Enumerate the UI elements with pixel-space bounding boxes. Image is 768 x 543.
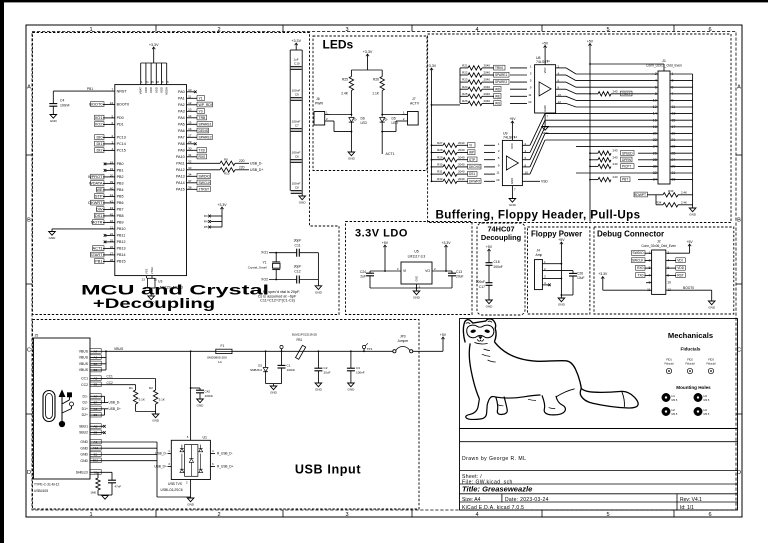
gnd cap bank: [299, 196, 306, 200]
svg-text:1.1K: 1.1K: [372, 92, 380, 96]
svg-text:VDI: VDI: [677, 259, 683, 263]
svg-text:U5: U5: [414, 250, 419, 254]
svg-text:2: 2: [217, 27, 220, 33]
svg-text:GND: GND: [413, 296, 421, 300]
svg-text:VCC: VCC: [510, 143, 514, 149]
svg-text:PWR: PWR: [315, 101, 323, 105]
power +5V debug: [666, 252, 690, 254]
svg-text:SPEED: SPEED: [622, 151, 633, 155]
svg-text:PC15: PC15: [117, 149, 126, 153]
svg-text:VI: VI: [403, 269, 406, 273]
wire U8 out to J1 pin 10: [556, 95, 566, 97]
ferret back and rump outline: [494, 342, 581, 389]
wire XO2: [269, 279, 297, 281]
svg-text:24: 24: [146, 80, 149, 84]
svg-text:PB4: PB4: [117, 188, 124, 192]
resistor R9 243 PICPT: [590, 165, 598, 167]
junction XO2 crystal: [275, 279, 277, 281]
svg-text:S1: S1: [94, 470, 98, 474]
J1 pin 15 stub: [670, 119, 693, 121]
svg-text:1: 1: [403, 110, 405, 114]
svg-text:Title: Greaseweazle: Title: Greaseweazle: [462, 485, 533, 494]
svg-text:24: 24: [653, 145, 657, 149]
test point TP1: [363, 350, 365, 352]
wire U5 VO to +3.3V: [432, 270, 452, 272]
U8 triangle: [539, 82, 551, 96]
wire U1 pin4 R_USB_D-: [210, 453, 215, 455]
svg-text:4: 4: [475, 27, 478, 33]
svg-text:VBUS: VBUS: [79, 368, 89, 372]
svg-text:R32: R32: [437, 177, 443, 181]
svg-text:RST: RST: [677, 273, 684, 277]
gnd crystal: [315, 286, 322, 290]
svg-text:C8: C8: [295, 186, 299, 190]
resistor R34 2.4K: [656, 204, 663, 206]
svg-text:9: 9: [498, 163, 500, 167]
svg-text:2040: 2040: [484, 64, 491, 68]
svg-text:BOOT0: BOOT0: [683, 286, 694, 290]
svg-text:23: 23: [142, 278, 146, 282]
svg-text:1: 1: [89, 27, 92, 33]
jumper JP3: [393, 350, 396, 353]
svg-text:Drawn by George R. ML: Drawn by George R. ML: [462, 456, 526, 462]
svg-text:C13: C13: [456, 270, 462, 274]
wire LED D6 cathode: [350, 122, 352, 152]
svg-text:30pF: 30pF: [294, 239, 302, 243]
J1 pin 17 stub: [670, 126, 693, 128]
wire U1 pin3 USB_D+: [168, 466, 172, 468]
junction VBUS: [105, 350, 107, 352]
svg-text:2040: 2040: [484, 92, 491, 96]
svg-text:R24: R24: [462, 85, 468, 89]
wire J4 pin2 to C26: [548, 270, 573, 272]
svg-text:4: 4: [544, 281, 546, 285]
gnd floppy power: [558, 298, 565, 302]
ferret tail: [580, 388, 638, 408]
gnd shield: [102, 496, 109, 500]
svg-text:M3.5: M3.5: [704, 412, 710, 416]
svg-text:13: 13: [528, 100, 532, 104]
resistor R8 243 DPRN: [590, 159, 598, 161]
svg-text:TRB: TRB: [199, 116, 207, 120]
resistor R26 2040 WS: [460, 102, 468, 104]
cap bank left rail: [289, 50, 291, 191]
svg-text:SMBJ6.0: SMBJ6.0: [250, 368, 262, 372]
svg-text:USB4105: USB4105: [34, 489, 48, 493]
ferret right eye: [484, 329, 490, 333]
svg-text:YI: YI: [469, 143, 472, 147]
J1 pin 1 stub: [670, 73, 693, 75]
svg-text:DI1: DI1: [96, 141, 102, 146]
svg-text:100nF: 100nF: [60, 104, 70, 108]
svg-text:VBUS: VBUS: [114, 347, 124, 351]
svg-text:C: C: [27, 348, 31, 354]
svg-text:RX0: RX0: [637, 266, 644, 270]
svg-text:XO2: XO2: [261, 278, 268, 282]
connector J2 body: [652, 250, 666, 294]
J1 pin 19 stub: [670, 132, 693, 134]
net label VSD U9 pin12: [522, 180, 540, 182]
wire J1 pin2 feed from +5V rail: [590, 63, 664, 65]
svg-text:PA13: PA13: [176, 175, 185, 179]
capacitor C7 100nF: [291, 128, 302, 130]
svg-text:21: 21: [671, 138, 675, 142]
svg-text:20uF: 20uF: [324, 371, 331, 375]
svg-text:PBT: PBT: [622, 178, 628, 182]
svg-text:B1: B1: [94, 453, 98, 457]
svg-text:VDD: VDD: [677, 266, 685, 270]
U9 triangle: [506, 156, 518, 170]
svg-text:DS1: DS1: [469, 172, 475, 176]
frame tick top 2: [282, 25, 284, 32]
svg-text:SWCLK: SWCLK: [199, 181, 212, 185]
svg-text:CC1: CC1: [81, 377, 88, 381]
svg-text:GND: GND: [348, 157, 356, 161]
svg-text:PB15: PB15: [117, 260, 126, 264]
gnd under C4: [50, 115, 57, 119]
connector J5 body: [34, 338, 91, 479]
svg-text:D: D: [27, 470, 31, 476]
svg-text:15: 15: [671, 118, 675, 122]
svg-text:H1: H1: [672, 394, 676, 398]
wire D3 C1 gnd join: [266, 383, 282, 385]
svg-text:5.1K: 5.1K: [159, 397, 165, 401]
svg-text:2.4K: 2.4K: [681, 191, 687, 195]
svg-text:PB14: PB14: [117, 253, 126, 257]
svg-text:PA9: PA9: [178, 149, 185, 153]
J4 pin 4: [542, 284, 548, 286]
svg-text:PB0: PB0: [117, 162, 124, 166]
svg-text:GND: GND: [49, 236, 57, 240]
svg-text:USB_D-: USB_D-: [155, 452, 167, 456]
frame tick bottom 5: [673, 510, 675, 517]
svg-text:220: 220: [239, 166, 245, 170]
frame tick right 1: [736, 154, 742, 156]
svg-text:VSSA: VSSA: [150, 267, 154, 274]
svg-text:1: 1: [326, 110, 328, 114]
svg-text:Mounting Holes: Mounting Holes: [676, 385, 711, 390]
svg-text:D1-: D1-: [83, 394, 89, 398]
svg-text:C11: C11: [295, 243, 301, 247]
wire RDWPT bracket: [655, 195, 657, 205]
resistor R20 243 PBT: [590, 179, 598, 181]
gnd D3 C1: [270, 386, 277, 390]
svg-text:100nF: 100nF: [356, 371, 365, 375]
section box LEDs: [313, 36, 427, 171]
svg-text:+5V: +5V: [382, 241, 389, 245]
svg-text:Amp: Amp: [536, 253, 543, 257]
svg-text:+Decoupling: +Decoupling: [93, 295, 215, 311]
svg-text:XO2: XO2: [95, 122, 103, 127]
resistor R26 1.1K: [380, 77, 384, 91]
resistor R31 2040 DS1: [432, 173, 444, 175]
svg-text:LED: LED: [392, 121, 399, 125]
section box Buffering Floppy Header Pull-Ups: [428, 34, 731, 223]
capacitor C10 1uF: [291, 66, 302, 68]
capacitor C9 100nF: [291, 97, 302, 99]
wire U9 out to J1 row 22: [522, 173, 530, 175]
svg-text:VDDA: VDDA: [165, 87, 169, 95]
capacitor C24 2uF: [369, 271, 371, 273]
svg-text:2: 2: [558, 64, 560, 68]
J1 pin 29 stub: [670, 165, 693, 167]
svg-text:M3.5: M3.5: [672, 398, 678, 402]
J5 usb-c oval: [43, 391, 55, 422]
svg-text:GND: GND: [510, 178, 514, 184]
wire XO1: [269, 252, 297, 254]
wire CC2 to R1: [106, 384, 136, 386]
ferret head outline: [463, 319, 496, 343]
svg-text:A12: A12: [93, 446, 99, 450]
ferret right ear inner: [488, 321, 492, 322]
svg-text:A8: A8: [94, 424, 98, 428]
svg-text:XO1: XO1: [261, 251, 268, 255]
svg-text:PA14: PA14: [176, 181, 185, 185]
svg-text:10: 10: [525, 171, 529, 175]
TVS U1 inner diodes: [180, 448, 184, 451]
svg-text:12: 12: [653, 105, 657, 109]
svg-text:100nF: 100nF: [205, 394, 214, 398]
svg-text:SWDIO: SWDIO: [199, 174, 211, 178]
resistor R2 5.1K: [153, 390, 157, 404]
svg-text:PB2: PB2: [117, 175, 124, 179]
svg-text:200nF: 200nF: [494, 265, 503, 269]
MCU bottom VSS pins: [146, 276, 148, 279]
svg-text:2uF: 2uF: [360, 275, 366, 279]
svg-text:BOOT0: BOOT0: [117, 103, 129, 107]
wire J1 pin32 row: [576, 172, 652, 174]
svg-text:5: 5: [498, 156, 500, 160]
ferrite bead FB1: [296, 345, 306, 359]
svg-text:2040: 2040: [458, 177, 465, 181]
svg-text:20uF: 20uF: [456, 275, 463, 279]
capacitor C18 200nF: [486, 262, 493, 264]
wire J4 pin1 to +5V: [548, 263, 561, 265]
ferret muzzle: [477, 339, 484, 341]
J1 pin 33 stub: [670, 179, 693, 181]
svg-text:C6: C6: [295, 155, 299, 159]
svg-text:8: 8: [558, 86, 560, 90]
svg-text:WD: WD: [495, 87, 501, 91]
svg-text:VCC: VCC: [543, 67, 547, 73]
wire J2 pin12 to gnd: [666, 289, 712, 291]
svg-text:+5V: +5V: [542, 41, 549, 45]
svg-text:SPARE1: SPARE1: [495, 73, 507, 77]
resistor R23 2040 SPARE2: [460, 81, 468, 83]
svg-text:PA5: PA5: [178, 123, 185, 127]
svg-text:H2: H2: [672, 408, 676, 412]
svg-text:GND: GND: [416, 276, 419, 282]
svg-text:3: 3: [498, 149, 500, 153]
gnd debug: [708, 301, 715, 305]
resistor R33 2.4K: [647, 194, 663, 196]
wire U8 out to J1 pin 2: [556, 67, 566, 69]
svg-text:B12: B12: [93, 459, 99, 463]
svg-text:Buffering, Floppy Header, Pull: Buffering, Floppy Header, Pull-Ups: [436, 209, 641, 222]
ferret second front leg: [496, 397, 508, 415]
svg-text:WE: WE: [96, 187, 103, 192]
svg-text:C11=C12=2*(C1-Cs): C11=C12=2*(C1-Cs): [260, 299, 295, 303]
svg-text:1: 1: [498, 142, 500, 146]
svg-text:DW: DW: [96, 207, 103, 212]
fiducial FID1 symbol: [666, 368, 671, 373]
power +5V LDO: [384, 245, 386, 250]
svg-text:RDWPT: RDWPT: [634, 193, 646, 197]
wire U8 out to J1 pin 8: [556, 88, 566, 90]
svg-text:14: 14: [547, 59, 551, 63]
J1 pin 34 stub: [652, 179, 658, 181]
svg-text:B4: B4: [94, 362, 98, 366]
svg-text:USB_D-: USB_D-: [250, 161, 263, 165]
svg-text:BLM21PG221SN1D: BLM21PG221SN1D: [292, 333, 317, 337]
svg-text:USB_D+: USB_D+: [154, 465, 167, 469]
svg-text:3: 3: [544, 275, 546, 279]
wire LED D5 cathode to ACT1: [381, 122, 383, 154]
svg-text:8: 8: [655, 92, 657, 96]
svg-text:ACT1: ACT1: [386, 152, 395, 156]
J1 pin 25 stub: [670, 152, 693, 154]
svg-text:Mechanicals: Mechanicals: [668, 331, 713, 340]
svg-text:B9: B9: [94, 368, 98, 372]
svg-text:C18: C18: [494, 260, 500, 264]
svg-text:8: 8: [525, 163, 527, 167]
resistor R30 2040 DKCHG: [432, 166, 444, 168]
wire U9 out to J1 row 24: [576, 146, 652, 148]
capacitor C8 100nF: [291, 190, 302, 192]
svg-text:4: 4: [655, 79, 657, 83]
svg-text:30: 30: [653, 165, 657, 169]
svg-text:11: 11: [496, 171, 499, 175]
J1 pin 28 stub: [652, 159, 658, 161]
svg-text:25: 25: [671, 151, 675, 155]
ferret hind leg and paw: [542, 395, 565, 414]
frame tick bottom 3: [411, 510, 413, 517]
ferret belly stripe: [528, 399, 536, 400]
J1 pin 27 stub: [670, 159, 693, 161]
net-tie U0 under MCU: [148, 278, 156, 288]
svg-text:17: 17: [671, 125, 675, 129]
section box MCU and Crystal (L-shaped): [33, 33, 340, 315]
J1 pin 30 stub: [652, 165, 658, 167]
J1 pin 3 stub: [670, 80, 693, 82]
title block drawing/ferret box: [460, 319, 738, 429]
wire U8 out to J1 pin 12: [556, 102, 566, 104]
svg-text:Floppy Power: Floppy Power: [531, 229, 582, 238]
svg-text:12: 12: [558, 100, 562, 104]
svg-text:2040: 2040: [484, 78, 491, 82]
svg-text:C3: C3: [356, 366, 360, 370]
J1 pin 10 stub: [652, 99, 658, 101]
ferret face mask: [467, 325, 494, 338]
fuse F1: [216, 349, 232, 353]
connector J1 body: [658, 71, 670, 184]
svg-text:GND: GND: [689, 213, 697, 217]
capacitor C25 47nF shield: [111, 472, 113, 480]
svg-text:B5: B5: [94, 383, 98, 387]
svg-text:JTRST: JTRST: [199, 187, 210, 191]
svg-text:KiCad E.D.A. kicad 7.0.5: KiCad E.D.A. kicad 7.0.5: [462, 505, 524, 511]
svg-text:14: 14: [514, 135, 518, 139]
svg-text:D3: D3: [258, 363, 262, 367]
connector J6: [314, 112, 325, 126]
svg-text:CC1: CC1: [107, 375, 114, 379]
svg-text:DPRN: DPRN: [622, 158, 632, 162]
resistor R29 2040 STP: [432, 159, 444, 161]
gnd C2: [315, 383, 322, 387]
svg-text:26: 26: [653, 151, 657, 155]
svg-text:5: 5: [606, 512, 609, 518]
wire U9 out to J1 row 18: [522, 159, 530, 161]
svg-text:Y0: Y0: [199, 109, 203, 113]
section box 74HC07 Decoupling (rounded): [477, 223, 525, 315]
group1 bracket vertical: [459, 68, 461, 104]
svg-text:220: 220: [239, 159, 245, 163]
ferret chest and front outline: [469, 343, 479, 398]
connector J4 body: [535, 260, 543, 290]
J1 pin 2 stub: [652, 73, 658, 75]
svg-text:100nF: 100nF: [476, 280, 485, 284]
svg-text:DS1: DS1: [95, 213, 103, 218]
svg-text:PA0: PA0: [178, 90, 185, 94]
svg-text:FB1: FB1: [297, 338, 303, 342]
svg-text:27: 27: [671, 158, 675, 162]
gnd CC resistors: [152, 414, 159, 418]
wire LDO ground rail: [370, 287, 452, 289]
svg-text:Date: 2023-03-24: Date: 2023-03-24: [505, 497, 549, 503]
svg-text:GND: GND: [348, 388, 356, 392]
svg-text:D2+: D2+: [82, 413, 88, 417]
svg-text:2.4K: 2.4K: [681, 201, 687, 205]
svg-text:R3: R3: [204, 214, 208, 218]
svg-text:GND: GND: [80, 440, 88, 444]
power +5V U9: [511, 121, 513, 126]
svg-text:VSD: VSD: [541, 179, 548, 183]
svg-text:MOTR: MOTR: [91, 220, 103, 225]
svg-text:PD1: PD1: [117, 123, 124, 127]
svg-text:PB9: PB9: [117, 221, 124, 225]
resistor R9 22R USB_D-: [220, 161, 235, 165]
svg-text:STP: STP: [469, 158, 475, 162]
svg-text:SPARE1: SPARE1: [199, 122, 212, 126]
gnd U8: [544, 113, 546, 127]
svg-text:100nF: 100nF: [287, 368, 296, 372]
J4 pin 3: [542, 278, 548, 280]
svg-text:A: A: [27, 85, 31, 91]
svg-text:31: 31: [671, 171, 675, 175]
svg-text:J5: J5: [35, 334, 39, 338]
wire U8 out to J1 pin 6: [556, 81, 566, 83]
resistor R11 1M shield: [97, 472, 99, 478]
capacitor C6 100nF: [291, 159, 302, 161]
svg-text:GND: GND: [80, 453, 88, 457]
svg-text:6: 6: [558, 79, 560, 83]
junction LED D6 cathode: [351, 131, 353, 133]
fiducial FID2 symbol: [687, 368, 692, 373]
svg-text:H3: H3: [704, 394, 708, 398]
wire CC1 to R2: [106, 378, 156, 380]
capacitor C17 100nF: [486, 282, 493, 284]
svg-text:+3.3V: +3.3V: [442, 241, 452, 245]
svg-text:USB Input: USB Input: [295, 463, 361, 477]
svg-text:2040: 2040: [458, 170, 465, 174]
svg-text:VDD: VDD: [144, 87, 148, 93]
svg-text:GND: GND: [299, 201, 307, 205]
power +3.3V MCU top: [153, 47, 155, 52]
svg-text:SBU1: SBU1: [79, 424, 88, 428]
svg-text:3: 3: [530, 72, 532, 76]
ferret tail band: [622, 392, 625, 407]
title block row line 4: [460, 493, 738, 495]
